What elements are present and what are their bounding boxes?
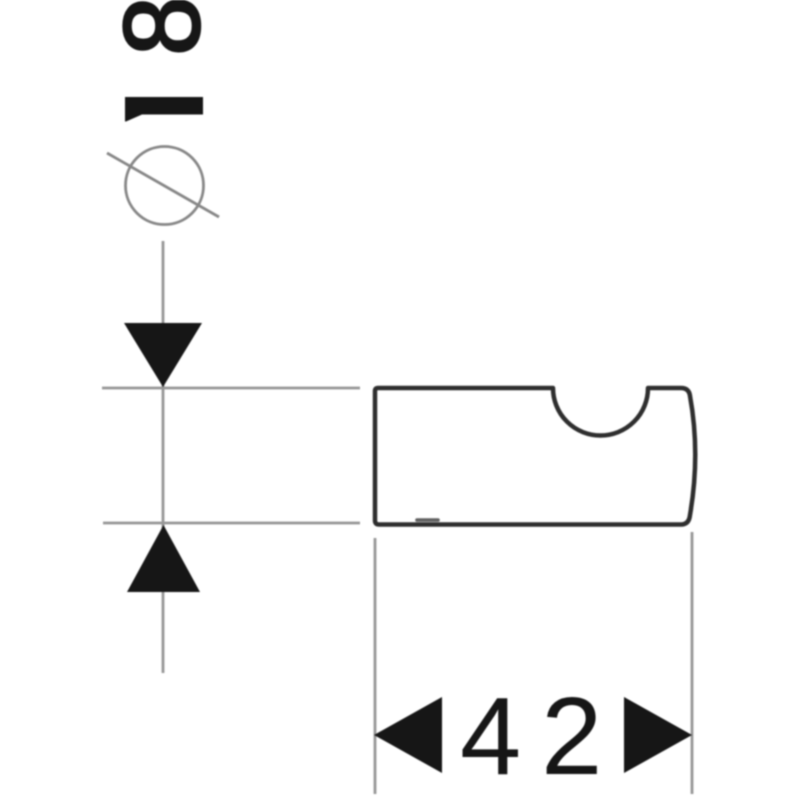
arrow right: [624, 697, 692, 773]
hook outline: [375, 388, 695, 525]
small bump on hook bottom edge: [417, 518, 438, 522]
dimension text digit 1 (rotated): [125, 97, 203, 122]
arrow down: [124, 323, 202, 387]
right extension line for 42: [691, 532, 694, 794]
diameter symbol circle: [126, 147, 204, 225]
arrow up: [127, 525, 200, 592]
top extension line: [102, 387, 360, 390]
vertical dimension line: [162, 241, 165, 673]
left extension line for 42: [374, 538, 377, 794]
diameter symbol slash: [107, 153, 219, 217]
bottom extension line: [103, 522, 360, 525]
svg-text:8: 8: [101, 0, 222, 56]
svg-text:42: 42: [460, 675, 622, 798]
arrow left: [374, 697, 442, 773]
